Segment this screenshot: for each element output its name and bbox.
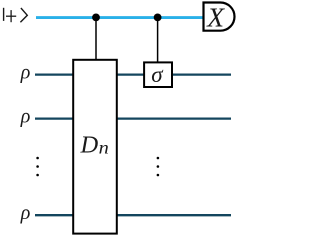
- wire rho 1 middle segment: [116, 73, 145, 75]
- gate sigma box: [144, 62, 172, 87]
- svg-text:ρ: ρ: [20, 61, 31, 83]
- svg-text:ρ: ρ: [20, 105, 31, 127]
- svg-text:X: X: [206, 2, 225, 33]
- vdots right: [157, 157, 160, 177]
- wire control vertical to Dn: [95, 18, 97, 60]
- label ket plus vertical: [10, 10, 12, 22]
- gate Dn box: [73, 60, 117, 234]
- label ket plus horizontal: [6, 15, 16, 17]
- control dot 2: [154, 14, 162, 22]
- label ket plus bar: [3, 8, 5, 21]
- wire control vertical to sigma: [157, 18, 159, 63]
- wire rho bottom left segment: [35, 214, 74, 216]
- label ket angle bracket: [20, 8, 27, 22]
- wire rho 2 right segment: [116, 117, 231, 119]
- wire rho 2 left segment: [35, 117, 74, 119]
- wire |+> cyan top wire: [36, 16, 204, 19]
- control dot 1: [92, 14, 100, 22]
- wire rho 1 right segment: [171, 73, 231, 75]
- meter X measurement box: [204, 3, 235, 31]
- svg-text:σ: σ: [151, 62, 164, 87]
- svg-text:n: n: [99, 138, 109, 158]
- svg-text:D: D: [80, 131, 99, 158]
- wire rho 1 left segment: [35, 73, 74, 75]
- wire rho bottom right segment: [116, 214, 231, 216]
- vdots left: [36, 157, 39, 177]
- svg-text:ρ: ρ: [20, 202, 31, 224]
